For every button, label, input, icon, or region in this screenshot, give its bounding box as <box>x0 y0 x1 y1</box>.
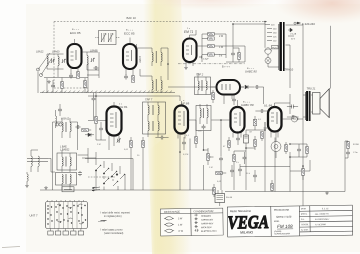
svg-text:CONDENSATORI: CONDENSATORI <box>193 210 213 213</box>
value labels <box>97 119 262 183</box>
wire: detector out <box>211 87 264 104</box>
manufacturer title block <box>227 205 352 237</box>
svg-text:U 2,2A: U 2,2A <box>290 33 297 36</box>
svg-text:UNT 7: UNT 7 <box>30 214 38 218</box>
capacitor C16 <box>182 137 186 150</box>
legend notes <box>98 212 130 235</box>
tube V4 ratio detector (horizontal) <box>211 80 245 104</box>
ground G4 <box>325 192 329 195</box>
resistor R8 <box>94 96 97 140</box>
wire: B+ rail dash-dot <box>178 63 245 65</box>
resistor R13 <box>253 136 256 150</box>
ferrite antenna L1 <box>27 150 48 172</box>
capacitor C15 <box>155 136 168 140</box>
resistor R7 <box>82 128 91 131</box>
diode D3 <box>85 133 94 137</box>
svg-text:ECC 85: ECC 85 <box>70 31 81 35</box>
tube V8 UL84 <box>268 103 282 138</box>
wire: converter grid <box>88 93 180 150</box>
wire: AM column links <box>48 122 96 190</box>
svg-text:(valori microfarad): (valori microfarad) <box>104 232 123 235</box>
svg-text:0,5 M: 0,5 M <box>183 154 188 156</box>
svg-text:L8A47: L8A47 <box>139 55 142 63</box>
capacitor C12 <box>78 171 82 176</box>
wire: decoupling <box>234 122 265 151</box>
resistor R19 <box>216 171 226 174</box>
wire: feedback <box>290 144 310 171</box>
volume potentiometer P1 <box>206 150 213 165</box>
svg-text:1 M: 1 M <box>209 167 213 169</box>
svg-text:0,5µF: 0,5µF <box>203 59 209 61</box>
wire: right edge <box>345 141 348 158</box>
ground G3 <box>44 186 48 189</box>
scan mark bottom-left <box>2 247 20 248</box>
svg-text:L8A60: L8A60 <box>52 49 60 53</box>
tube V5 label ECH81 <box>117 104 128 110</box>
trimmer C4 <box>91 58 95 62</box>
wire: switch dashed link <box>88 176 116 178</box>
capacitor C30 <box>243 152 247 164</box>
rectifier D1 <box>286 25 304 41</box>
svg-text:FUS: FUS <box>272 47 277 49</box>
tube V6 UF89 <box>175 101 189 139</box>
capacitor C11 <box>75 125 80 129</box>
svg-text:ing. L PASETTI: ing. L PASETTI <box>315 212 329 215</box>
label detector stage <box>245 68 257 74</box>
resistor legend table <box>160 209 191 236</box>
coil L2 <box>27 172 28 184</box>
wire: antenna coupling <box>47 54 64 77</box>
svg-text:BAF 10: BAF 10 <box>127 16 137 20</box>
capacitor C23 <box>230 165 234 177</box>
svg-text:CARTA 160V: CARTA 160V <box>201 218 214 221</box>
capacitor C8 stack <box>231 48 241 62</box>
capacitor C13 <box>99 122 103 140</box>
trimmer C2 <box>62 59 66 63</box>
loudspeaker SP1 <box>313 88 330 118</box>
oscillator coil L3 <box>56 173 77 191</box>
wire: speaker connections <box>290 95 313 119</box>
svg-text:ECC 85: ECC 85 <box>124 32 135 36</box>
ground G1 <box>184 66 188 69</box>
svg-text:TRF 2: TRF 2 <box>196 73 204 77</box>
resistor R9 <box>129 137 132 152</box>
electrolytic CE1 <box>244 130 249 148</box>
resistor R25 <box>270 180 273 192</box>
wire: primary bottom <box>265 44 279 67</box>
svg-text:TRF 7: TRF 7 <box>145 98 153 102</box>
wire: output cathode line <box>240 166 290 168</box>
resistor R15 <box>301 166 304 180</box>
power transformer primary taps <box>265 22 277 45</box>
tube V3 label EM71 <box>184 28 193 34</box>
diode D2 <box>240 85 254 89</box>
resistor R12 <box>232 151 235 166</box>
svg-text:CONTR.: CONTR. <box>301 224 309 226</box>
wire: AF section <box>168 87 231 156</box>
IF coil L8A47 (upper pair) <box>139 48 162 66</box>
wire: chassis verticals <box>47 63 88 93</box>
svg-text:MILANO: MILANO <box>240 230 253 234</box>
svg-text:EM 71: EM 71 <box>184 30 193 34</box>
mains plug node <box>294 22 315 26</box>
svg-text:FM 108: FM 108 <box>277 224 293 229</box>
svg-text:2 M: 2 M <box>219 35 223 38</box>
output transformer TRU21 core <box>306 91 310 121</box>
capacitor C18 <box>297 144 301 157</box>
resistor R10 <box>141 137 144 152</box>
wire: HT rail <box>286 25 304 207</box>
resistor R18 <box>227 137 230 151</box>
resistor R16 <box>346 142 359 148</box>
fuse F1 <box>265 46 278 55</box>
dial lamp LP2 <box>271 133 281 158</box>
electrolytic CE2 <box>215 190 233 206</box>
resistor R1 <box>76 72 79 78</box>
capacitor C7 <box>199 56 209 61</box>
svg-text:E 220-240: E 220-240 <box>302 22 315 26</box>
tube V2 ECC85 <box>123 38 137 77</box>
svg-text:½ W: ½ W <box>178 229 184 233</box>
resistor R11 <box>194 133 197 148</box>
capacitor C26 <box>232 95 236 106</box>
chassis hatched bar <box>40 91 175 93</box>
switch S2 mains contacts <box>92 174 118 192</box>
resistor R6 <box>253 116 256 130</box>
FM tuner shield box (dash-dot border) <box>54 22 268 89</box>
wire: B+ feed top <box>226 24 265 62</box>
wire: mains lead <box>330 26 332 89</box>
resistor R21 <box>211 90 214 103</box>
pilot lamp LP1 <box>265 58 271 64</box>
tube V6 label UF89 <box>181 100 189 106</box>
svg-text:SUPERLEGGERA: SUPERLEGGERA <box>274 232 290 235</box>
IF coil lower pair <box>152 76 162 93</box>
phone jack J1 <box>292 116 299 122</box>
svg-text:PROG.: PROG. <box>301 214 308 216</box>
antenna dipole <box>37 53 53 93</box>
fuse box FB1 <box>62 187 74 192</box>
svg-text:B + + +: B + + + <box>222 66 230 69</box>
wire: switch drops <box>96 152 125 190</box>
ground G2 <box>25 184 29 187</box>
variable tuning gang CV1 <box>95 31 121 45</box>
wire: EM71 grid network <box>190 30 246 62</box>
svg-text:30 V: 30 V <box>291 39 296 41</box>
trimmer C1 <box>51 59 55 63</box>
coil LQ5 <box>55 110 70 128</box>
capacitor C19 <box>346 150 358 155</box>
wire: audio output stage <box>264 103 291 128</box>
tube V1 ECC85 <box>68 39 82 74</box>
socket board terminal lugs <box>48 229 84 236</box>
tube V5 ECH81 <box>107 102 122 141</box>
transformer TRF2 <box>195 73 211 95</box>
resistor R22 <box>260 132 263 142</box>
capacitor C20 <box>58 104 62 116</box>
trimmer C14 <box>117 139 121 143</box>
transformer TRF8 <box>196 104 211 131</box>
resistor R5 <box>208 53 223 58</box>
logo VEGA <box>227 209 269 235</box>
resistor R2 <box>131 76 134 82</box>
label L BAE02 <box>60 146 70 152</box>
svg-text:RESISTENZE: RESISTENZE <box>164 210 181 214</box>
capacitor C24 <box>238 164 242 176</box>
wire: FM IF links <box>137 44 169 80</box>
svg-text:DATA: DATA <box>301 207 307 210</box>
svg-text:PRODUZIONE: PRODUZIONE <box>274 210 290 212</box>
title block product column <box>274 210 293 236</box>
svg-text:N. DIST.: N. DIST. <box>301 229 309 231</box>
resistor R3 <box>208 32 223 40</box>
svg-text:MOD.: MOD. <box>274 221 280 223</box>
tube V7 label UABC80 <box>241 102 254 108</box>
svg-text:TRA 10: TRA 10 <box>285 68 294 72</box>
svg-text:N. PORCIVALLI: N. PORCIVALLI <box>315 218 330 221</box>
wire: FM output link <box>44 77 88 79</box>
capacitor C17 <box>219 156 223 166</box>
coil L8A98 <box>87 48 98 70</box>
resistor R14 <box>305 144 308 157</box>
capacitor C27 <box>287 105 298 109</box>
capacitor C22 <box>236 133 240 145</box>
svg-text:in migliaia (ohm): in migliaia (ohm) <box>104 215 122 218</box>
tube V2 label <box>124 30 135 36</box>
svg-text:ELETTROLITICI: ELETTROLITICI <box>201 231 217 233</box>
wire: AVC line <box>85 159 133 191</box>
svg-text:50+50: 50+50 <box>226 197 233 199</box>
svg-text:R 200: R 200 <box>353 144 360 146</box>
valve socket board UNT7 <box>46 200 88 229</box>
svg-text:CARTA 400V: CARTA 400V <box>201 222 214 225</box>
svg-text:TRU 21: TRU 21 <box>307 87 316 91</box>
coil L8A22 <box>36 49 48 69</box>
svg-text:UABC 80: UABC 80 <box>245 70 257 74</box>
capacitor C9 <box>254 85 263 89</box>
svg-text:U BA12: U BA12 <box>61 118 70 121</box>
svg-text:D.L.: D.L. <box>301 219 305 221</box>
svg-text:C 5n: C 5n <box>353 152 358 154</box>
svg-text:L8A22: L8A22 <box>36 49 44 53</box>
transformer TRF7 <box>143 98 166 138</box>
resistor R4 <box>208 44 223 49</box>
svg-text:1 M: 1 M <box>219 46 223 49</box>
capacitor C6 <box>124 74 128 79</box>
resistor R20 <box>212 184 215 197</box>
svg-text:2 M: 2 M <box>97 144 101 146</box>
transformer MF1 <box>62 118 71 138</box>
title block data table <box>301 207 330 232</box>
capacitor C25 tone <box>253 170 257 182</box>
band switch S1 contacts <box>95 165 125 186</box>
capacitor C10 <box>255 109 268 113</box>
svg-text:UABC 80: UABC 80 <box>241 103 254 107</box>
capacitor C5 <box>93 66 98 70</box>
capacitor legend table <box>191 208 223 235</box>
capacitor C28 <box>287 115 299 119</box>
transformer TRA10 core <box>279 22 284 71</box>
tube V7 UABC80 <box>231 100 245 138</box>
resistor R24 <box>284 142 287 154</box>
svg-text:SERIE H.108: SERIE H.108 <box>276 215 292 219</box>
resistor R23 <box>60 78 63 93</box>
svg-text:CERAMICI: CERAMICI <box>201 215 212 218</box>
main ground bus <box>40 141 345 192</box>
fold stain stripe <box>143 0 192 254</box>
coil L8A60 <box>52 49 60 69</box>
tube V8 label UL84 <box>264 103 272 107</box>
ground G5 <box>47 80 51 83</box>
wire: bus drops <box>131 122 303 192</box>
capacitor C29 <box>51 80 55 93</box>
svg-text:6. 2. 61: 6. 2. 61 <box>322 208 329 210</box>
svg-text:MICA 500V: MICA 500V <box>201 226 212 229</box>
pink scan tint top-right <box>274 0 360 24</box>
op tube U1 label <box>70 29 81 35</box>
transformer MF2 <box>57 150 77 172</box>
tube V3 EM71 <box>183 35 197 66</box>
svg-text:L BAE02: L BAE02 <box>60 149 70 152</box>
wire: interstage <box>82 52 99 78</box>
capacitor C21 <box>88 93 107 121</box>
resistor R17 <box>83 78 86 93</box>
svg-text:A. VICITANI: A. VICITANI <box>314 223 326 226</box>
capacitor C3 <box>69 73 73 78</box>
